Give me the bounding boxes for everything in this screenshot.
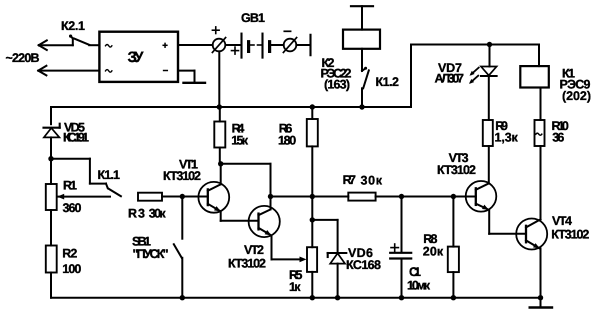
- node C1 top: [399, 194, 404, 199]
- svg-text:С1: С1: [409, 265, 421, 279]
- wire right riser and top-right rail: [411, 45, 539, 108]
- resistor R6 180: [278, 107, 318, 197]
- resistor R8 20k: [423, 197, 459, 298]
- transistor VT3 KT3102: [437, 151, 496, 212]
- wire R9 to VT3 collector: [488, 146, 490, 183]
- svg-text:100: 100: [62, 262, 81, 276]
- wire LED to R9: [488, 76, 490, 120]
- wire positive bus: [51, 106, 411, 108]
- wire rail corner to relay K1: [538, 45, 540, 67]
- svg-text:КС168: КС168: [346, 258, 381, 272]
- svg-text:(163): (163): [324, 78, 350, 92]
- contact K1.2: [362, 67, 399, 89]
- svg-text:К1.2: К1.2: [376, 75, 400, 89]
- svg-text:30к: 30к: [149, 207, 167, 221]
- resistor R5 1k variable: [289, 247, 317, 294]
- node R5/VD6 tap: [310, 217, 315, 222]
- capacitor C1 10uF: [390, 197, 431, 298]
- wire R5 to bottom bus: [311, 272, 313, 298]
- svg-text:30к: 30к: [361, 173, 383, 187]
- svg-text:180: 180: [278, 134, 296, 148]
- svg-text:R1: R1: [63, 179, 77, 193]
- svg-text:(202): (202): [562, 89, 591, 103]
- svg-text:КТ3102: КТ3102: [437, 163, 476, 177]
- svg-text:К2.1: К2.1: [61, 19, 85, 33]
- svg-text:R2: R2: [62, 247, 77, 261]
- transistor VT4 KT3102: [516, 214, 589, 250]
- wire collector node to R7: [271, 196, 349, 198]
- node R6 bottom: [310, 194, 315, 199]
- svg-text:360: 360: [63, 201, 82, 215]
- wire left rail top: [50, 107, 52, 124]
- wire K1 to R10: [540, 88, 542, 121]
- wire R3 to VT1 base: [162, 196, 208, 198]
- wire R1 to R2: [50, 210, 52, 246]
- zener diode VD6 KS168: [312, 220, 381, 298]
- svg-text:VT4: VT4: [552, 214, 572, 228]
- wire VT3 emitter to VT4 base: [489, 210, 526, 234]
- wire K2 to contact: [361, 49, 363, 71]
- resistor R2 100: [46, 246, 82, 277]
- wire R4 bottom / collector link: [221, 163, 271, 165]
- svg-text:КТ3102: КТ3102: [551, 227, 589, 241]
- svg-text:КТ3102: КТ3102: [163, 169, 201, 183]
- svg-text:~220В: ~220В: [6, 51, 40, 65]
- svg-text:15к: 15к: [231, 134, 248, 148]
- svg-text:GB1: GB1: [241, 11, 265, 25]
- relay coil K1: [520, 66, 591, 103]
- node K1.1 tap: [48, 156, 53, 161]
- wire link down to VT2 collector: [270, 164, 272, 210]
- antenna/terminal symbol above K2: [351, 6, 373, 29]
- wire VT1 collector riser: [220, 164, 222, 185]
- svg-text:"ПУСК": "ПУСК": [133, 247, 169, 261]
- LED VD7 AL307: [435, 45, 497, 86]
- node R8 top: [451, 194, 456, 199]
- wire zener to junction: [50, 137, 52, 158]
- node VT2 collector junction: [268, 194, 273, 199]
- node bus junctions: [217, 104, 365, 109]
- svg-text:ЗУ: ЗУ: [128, 49, 145, 66]
- wire connector down to positive bus: [218, 51, 220, 107]
- wire VT1 emitter to VT2 base: [221, 212, 259, 221]
- wire VT4 emitter to ground bus: [540, 249, 542, 298]
- resistor R1 360 variable: [46, 179, 110, 216]
- node junction LED branch: [487, 42, 492, 47]
- wire bottom bus: [51, 297, 541, 299]
- battery GB1: [226, 11, 284, 58]
- svg-text:1,3к: 1,3к: [495, 131, 519, 145]
- wire junction to R1: [50, 159, 52, 184]
- contact K2.1: [61, 19, 89, 45]
- transistor VT1 KT3102: [163, 158, 229, 213]
- wire PSU plus to connector: [178, 44, 213, 46]
- resistor R3 30k: [128, 193, 166, 221]
- resistor R4 15k: [214, 107, 248, 164]
- pushbutton SB1 PUSK: [132, 197, 182, 298]
- svg-text:VT2: VT2: [244, 243, 264, 257]
- node ~220V input arrows: [6, 40, 47, 75]
- battery end cell plate: [296, 35, 310, 55]
- transistor VT2 KT3102: [228, 206, 280, 271]
- node VT1 base / SB1 junction: [180, 194, 185, 199]
- svg-text:R3: R3: [128, 207, 145, 221]
- wire VT2 emitter to R5 wiper: [272, 236, 307, 263]
- relay coil K2: [321, 30, 381, 92]
- wire contact to bus: [361, 88, 363, 107]
- wire mains bottom lead: [40, 70, 100, 72]
- svg-text:КТ3102: КТ3102: [228, 257, 266, 271]
- svg-text:1к: 1к: [289, 280, 301, 294]
- power supply unit ZU (charger): [99, 32, 178, 82]
- wire R10 to VT4 collector: [540, 146, 542, 219]
- ground (chassis) at PSU minus: [178, 71, 205, 83]
- wire R6 node down to R5 tap: [311, 197, 313, 220]
- resistor R7 30k: [343, 173, 383, 201]
- wire tap to R5: [311, 220, 313, 247]
- wire mains top lead: [40, 44, 73, 46]
- wire R2 to bottom bus: [50, 273, 52, 298]
- connector X2 minus (circle-slash): [283, 31, 296, 52]
- node R4/VT1 collector: [218, 161, 223, 166]
- svg-text:36: 36: [552, 131, 564, 145]
- node bottom bus junctions: [180, 295, 544, 300]
- connector X1 plus (circle-slash): [212, 27, 225, 53]
- svg-text:20к: 20к: [423, 245, 444, 259]
- svg-text:R7: R7: [343, 173, 356, 187]
- zener diode VD5 KS191: [44, 121, 90, 145]
- wire contact to PSU: [89, 44, 99, 46]
- svg-text:АЛ307: АЛ307: [435, 71, 465, 85]
- svg-text:10мк: 10мк: [407, 279, 431, 293]
- svg-text:К1.1: К1.1: [98, 168, 121, 182]
- svg-text:КС191: КС191: [63, 131, 89, 145]
- resistor R10 36: [535, 119, 569, 146]
- wire R7 to VT3 base: [376, 196, 476, 198]
- ground (chassis) bottom right: [530, 298, 552, 308]
- contact K1.1: [51, 159, 121, 197]
- resistor R9 1.3k: [483, 119, 519, 146]
